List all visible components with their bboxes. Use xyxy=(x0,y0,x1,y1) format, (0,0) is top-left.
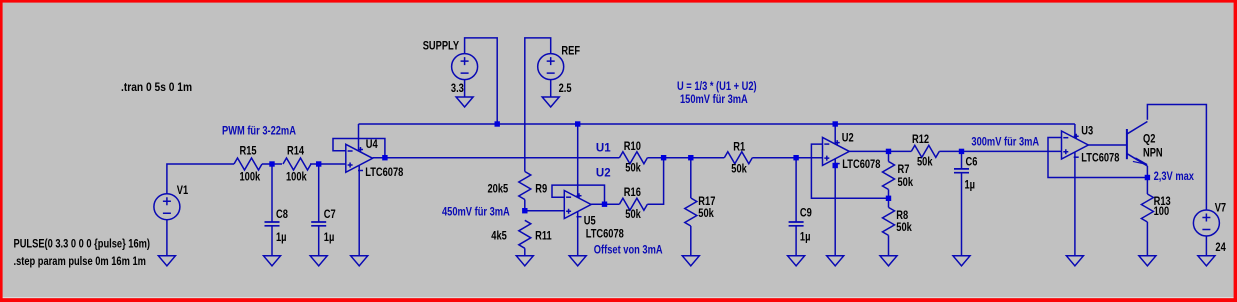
svg-text:50k: 50k xyxy=(896,222,912,234)
wire U3 V+ drop xyxy=(1074,124,1076,138)
svg-text:C7: C7 xyxy=(324,209,336,221)
capacitor C9 xyxy=(789,222,804,226)
node junction C9 xyxy=(793,155,798,160)
svg-text:R12: R12 xyxy=(912,134,929,146)
svg-text:20k5: 20k5 xyxy=(488,184,509,196)
svg-text:PWM für 3-22mA: PWM für 3-22mA xyxy=(222,126,296,138)
resistor R15 xyxy=(234,158,262,170)
svg-text:U4: U4 xyxy=(366,139,378,151)
voltage source REF xyxy=(538,54,564,80)
wire C6 node to U3 xyxy=(962,150,1062,152)
svg-text:4k5: 4k5 xyxy=(491,231,507,243)
ground below U5 xyxy=(569,256,586,266)
wire R13 to ground xyxy=(1146,222,1148,256)
ground below V7 xyxy=(1198,256,1215,266)
resistor R14 xyxy=(283,158,311,170)
ground below REF xyxy=(542,97,559,107)
svg-text:1µ: 1µ xyxy=(276,232,287,244)
svg-text:U1: U1 xyxy=(596,143,611,155)
wire input rail mid1 xyxy=(262,163,282,165)
svg-text:50k: 50k xyxy=(731,164,747,176)
node junction emitter xyxy=(1145,175,1150,180)
wire C9 to ground xyxy=(795,226,797,256)
wire V1 to input rail xyxy=(167,164,234,194)
transistor Q2 xyxy=(1127,122,1148,167)
wire R10 to R1 xyxy=(647,157,724,159)
svg-text:50k: 50k xyxy=(698,208,714,220)
wire U4 output rail to R10 xyxy=(373,157,620,159)
op-amp U3 xyxy=(1062,131,1089,159)
node junction U4 feedback xyxy=(382,155,387,160)
svg-text:U2: U2 xyxy=(842,133,854,145)
wire C6 drop xyxy=(961,151,963,169)
svg-text:1µ: 1µ xyxy=(324,232,335,244)
capacitor C8 xyxy=(265,222,280,226)
svg-text:50k: 50k xyxy=(917,157,933,169)
node junction divider xyxy=(522,208,527,213)
resistor R13 xyxy=(1141,194,1153,222)
ground below C8 xyxy=(264,256,281,266)
svg-text:R16: R16 xyxy=(624,187,641,199)
wire C7 drop xyxy=(318,164,320,222)
wire R17 to ground xyxy=(690,226,692,256)
resistor R1 xyxy=(724,152,752,164)
svg-text:150mV für 3mA: 150mV für 3mA xyxy=(680,94,748,106)
op-amp U4 xyxy=(346,144,373,172)
svg-text:100k: 100k xyxy=(240,172,261,184)
resistor R9 xyxy=(519,172,531,200)
wire U3 feedback loop xyxy=(1048,138,1147,178)
op-amp U2 xyxy=(823,137,850,165)
resistor R7 xyxy=(883,162,895,190)
wire supply top rail xyxy=(359,123,1075,125)
svg-text:C8: C8 xyxy=(276,209,288,221)
node junction sum xyxy=(661,155,666,160)
ground below U4 xyxy=(351,256,368,266)
svg-text:V7: V7 xyxy=(1215,203,1227,215)
svg-text:REF: REF xyxy=(561,46,580,58)
svg-text:450mV für 3mA: 450mV für 3mA xyxy=(442,207,510,219)
svg-text:1µ: 1µ xyxy=(800,232,811,244)
svg-text:R17: R17 xyxy=(698,196,715,208)
wire U2 output to R12 xyxy=(849,150,911,152)
node junction U5 feedback xyxy=(602,202,607,207)
node junction C6 xyxy=(959,149,964,154)
wire V1 to ground xyxy=(166,220,168,256)
wire U5 output to R16 xyxy=(591,203,619,205)
resistor R12 xyxy=(911,145,939,157)
wire R9 top from REF drop xyxy=(524,200,526,211)
wire R7 leads xyxy=(888,151,890,198)
svg-text:R14: R14 xyxy=(287,146,304,158)
svg-text:300mV für 3mA: 300mV für 3mA xyxy=(971,137,1039,149)
wire U4 V- to ground xyxy=(358,165,360,256)
svg-text:PULSE(0 3.3 0 0 0 {pulse} 16m): PULSE(0 3.3 0 0 0 {pulse} 16m) xyxy=(14,239,151,251)
svg-text:R15: R15 xyxy=(240,146,257,158)
wire Q2 emitter down xyxy=(1146,166,1148,194)
node junction U2 supply xyxy=(833,121,838,126)
wire U5 V- to ground xyxy=(577,212,579,256)
svg-text:Offset von 3mA: Offset von 3mA xyxy=(594,245,663,257)
emitter arrow of Q2 xyxy=(1133,158,1147,165)
svg-text:R11: R11 xyxy=(535,231,552,243)
capacitor C7 xyxy=(311,222,326,226)
wire R17 drop xyxy=(690,158,692,198)
wire R12 to C6 node xyxy=(939,150,961,152)
svg-text:R1: R1 xyxy=(733,142,745,154)
resistor R11 xyxy=(519,220,531,248)
wire R11 bottom to ground xyxy=(524,248,526,256)
voltage source V1 xyxy=(154,194,180,220)
svg-text:V1: V1 xyxy=(177,185,189,197)
node junction C8 xyxy=(269,161,274,166)
svg-text:.tran 0 5s 0 1m: .tran 0 5s 0 1m xyxy=(121,81,192,94)
svg-text:Q2: Q2 xyxy=(1143,134,1156,146)
node junction U2 output xyxy=(886,149,891,154)
node junction R17 top xyxy=(688,155,693,160)
resistor R16 xyxy=(619,198,647,210)
wire U2 V+ drop xyxy=(834,124,836,144)
svg-text:C9: C9 xyxy=(800,208,812,220)
svg-text:1µ: 1µ xyxy=(965,180,976,192)
wire R1 to U2 xyxy=(752,157,822,159)
svg-text:U5: U5 xyxy=(584,216,596,228)
svg-text:50k: 50k xyxy=(898,177,914,189)
ground below R8 xyxy=(880,256,897,266)
wire C7 to ground xyxy=(318,226,320,256)
wire SUPPLY loop xyxy=(465,38,498,124)
svg-text:NPN: NPN xyxy=(1143,148,1163,160)
wire U3 out to Q2 base xyxy=(1088,144,1127,146)
svg-text:LTC6078: LTC6078 xyxy=(586,229,624,241)
svg-text:.step param pulse 0m 16m 1m: .step param pulse 0m 16m 1m xyxy=(14,256,146,268)
wire U5 V+ drop xyxy=(577,124,579,198)
node junction R7 R8 xyxy=(886,196,891,201)
svg-text:U = 1/3 * (U1 + U2): U = 1/3 * (U1 + U2) xyxy=(677,81,757,93)
op-amp U5 xyxy=(564,191,591,219)
ground below V1 xyxy=(158,256,175,266)
svg-text:50k: 50k xyxy=(625,163,641,175)
svg-text:LTC6078: LTC6078 xyxy=(1081,153,1119,165)
svg-text:R7: R7 xyxy=(898,164,910,176)
capacitor C6 xyxy=(954,169,969,173)
node junction SUPPLY rail xyxy=(495,121,500,126)
ground below U3 xyxy=(1066,256,1083,266)
ground below R17 xyxy=(682,256,699,266)
wire V7 to ground xyxy=(1205,236,1207,256)
node junction U2 V- xyxy=(833,163,838,168)
ground below C7 xyxy=(310,256,327,266)
svg-text:U3: U3 xyxy=(1081,126,1093,138)
ground below C6 xyxy=(953,256,970,266)
wire R8 leads xyxy=(888,198,890,256)
svg-text:LTC6078: LTC6078 xyxy=(365,167,403,179)
node junction U5 supply xyxy=(575,121,580,126)
wire U2 feedback loop xyxy=(811,144,888,198)
svg-text:SUPPLY: SUPPLY xyxy=(423,41,459,53)
wire U4 feedback loop xyxy=(333,139,385,158)
ground below U2 xyxy=(827,256,844,266)
wire U4 V+ drop xyxy=(358,124,360,151)
node junction C7 xyxy=(316,161,321,166)
svg-text:R10: R10 xyxy=(624,141,641,153)
wire C6 to ground xyxy=(961,173,963,256)
svg-text:3.3: 3.3 xyxy=(451,83,464,95)
svg-text:2,3V max: 2,3V max xyxy=(1154,171,1195,183)
wire REF to ground xyxy=(550,80,552,97)
wire REF loop xyxy=(525,38,551,172)
svg-text:R8: R8 xyxy=(896,210,908,222)
voltage source SUPPLY xyxy=(452,54,478,80)
wire U5 feedback loop xyxy=(552,185,605,204)
wire U2 V- to ground xyxy=(834,158,836,255)
voltage source V7 xyxy=(1193,210,1219,236)
svg-text:C6: C6 xyxy=(966,157,978,169)
resistor R10 xyxy=(619,152,647,164)
ground below R13 xyxy=(1139,256,1156,266)
svg-text:100: 100 xyxy=(1154,206,1170,218)
svg-text:24: 24 xyxy=(1215,242,1226,254)
resistor R8 xyxy=(883,207,895,235)
ground below SUPPLY xyxy=(456,97,473,107)
svg-text:50k: 50k xyxy=(625,209,641,221)
wire SUPPLY to ground xyxy=(464,80,466,97)
red border frame xyxy=(0,0,1237,3)
svg-text:100k: 100k xyxy=(286,172,307,184)
ground below C9 xyxy=(788,256,805,266)
wire C8 to ground xyxy=(271,226,273,256)
svg-text:U2: U2 xyxy=(596,168,611,180)
wire C8 drop xyxy=(271,164,273,222)
wire divider to U5 In+ xyxy=(525,210,565,212)
wire R16 jog up to sum node xyxy=(647,158,663,205)
svg-text:R9: R9 xyxy=(535,184,547,196)
wire Q2 collector rail xyxy=(1147,105,1206,211)
svg-text:2.5: 2.5 xyxy=(559,83,572,95)
wire C9 drop xyxy=(795,158,797,222)
svg-text:LTC6078: LTC6078 xyxy=(842,159,880,171)
wire input rail mid2 xyxy=(310,163,346,165)
ground below R11 xyxy=(516,256,533,266)
resistor R17 xyxy=(685,198,697,226)
wire U3 V- to ground xyxy=(1074,152,1076,256)
